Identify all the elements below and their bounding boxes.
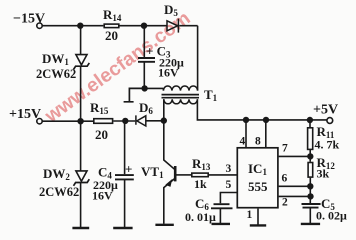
ground VT1 [155,224,173,226]
resistor R15 [94,119,113,124]
node dot pin2 [308,194,313,199]
wire C4 to ground [124,179,126,228]
pin 7 lead [279,155,311,157]
wire down to DW1 [80,26,82,55]
resistor R14 [104,24,119,28]
terminal -15V [37,23,42,28]
wire R14 to D5 [119,25,167,27]
wire R11 to pin7 node [309,150,311,162]
wire down to C3 [143,26,145,58]
pin 5 lead [220,193,236,204]
node dot C3 bottom [142,86,147,91]
IC U1 555 box [237,148,278,208]
svg-text:0. 01μ: 0. 01μ [185,210,216,224]
svg-text:16V: 16V [92,189,113,203]
svg-text:1: 1 [247,209,253,221]
svg-text:5: 5 [226,179,232,191]
ground C4 [113,227,132,229]
svg-text:DW2: DW2 [43,166,70,182]
node dot C3 top [142,23,147,28]
ground pin1 [250,224,266,226]
ground DW2 [72,227,89,229]
pin 4 lead [245,120,247,147]
wire R12 down to C5 [309,178,311,203]
ground C5 [301,223,320,225]
svg-text:20: 20 [95,127,108,142]
svg-text:1k: 1k [194,177,207,191]
svg-text:R14: R14 [103,7,122,23]
wire VT1 base to R13 [176,174,191,176]
capacitor C3 [138,58,155,62]
wire C6 to ground [219,208,221,223]
svg-text:3k: 3k [317,167,330,181]
svg-text:VT1: VT1 [141,164,164,180]
wire R13 to pin3 [209,174,237,176]
svg-text:+: + [125,162,132,177]
svg-text:20: 20 [105,28,118,43]
wire DW1 to +15V line [80,66,82,121]
svg-text:8: 8 [255,136,261,148]
capacitor C4 [115,175,134,179]
node dot pin6 [308,184,313,189]
svg-text:+15V: +15V [9,107,41,122]
diode D6 [136,115,146,126]
pin 1 lead [257,209,259,226]
diode D5 [167,19,178,33]
node dot R11 top [308,118,313,123]
node dot DW2 top [78,119,83,124]
node dot DW1 top [78,23,83,28]
wire DW2 vertical top [80,121,82,171]
wire R15 to D6 [113,120,135,122]
terminal +15V [37,119,42,124]
svg-text:D5: D5 [164,2,178,18]
node dot X [161,118,166,123]
wire C4 vertical [124,121,126,174]
pin 6 lead [279,185,311,187]
wire +15V to R15 [42,120,93,122]
wire -15V to R14 [42,25,103,27]
svg-text:−15V: −15V [13,12,45,27]
svg-text:4. 7k: 4. 7k [315,138,340,152]
node dot pin4 [244,118,249,123]
wire T1 bottom right down to +5V rail [197,99,327,120]
transistor VT1 collector [164,121,175,170]
pin 2 lead [279,195,311,197]
svg-text:7: 7 [282,143,288,155]
svg-text:555: 555 [248,179,268,194]
transformer T1 bottom winding [164,99,198,104]
terminal +5V [327,118,333,124]
pin 8 lead [265,120,267,147]
wire DW2 to ground [80,183,82,229]
tap stub with bar [124,88,145,101]
zener DW2 [76,171,87,181]
ground C6 [212,223,231,225]
resistor R11 lead top [309,120,311,128]
transistor VT1 emitter [164,179,175,224]
resistor R12 [308,163,313,178]
transformer T1 core [162,95,200,98]
svg-text:2CW62: 2CW62 [36,67,76,81]
svg-text:2: 2 [282,197,288,209]
capacitor C5 [302,204,321,208]
svg-text:0. 02μ: 0. 02μ [316,209,347,223]
transistor VT1 base bar [174,166,177,181]
svg-text:D6: D6 [139,100,153,116]
node dot pin8 [264,118,269,123]
wire C5 to ground [309,208,311,223]
wire node to T1 primary left [145,87,164,89]
wire D5 to corner [179,25,197,27]
svg-text:6: 6 [282,173,288,185]
svg-text:IC1: IC1 [248,161,267,177]
wire T1 secondary left down to node X [163,99,165,120]
svg-text:T1: T1 [204,87,218,103]
wire C3 to node [143,62,145,89]
node dot C4 top [123,119,128,124]
node dot pin7 [308,154,313,159]
wire corner down to T1 [197,26,199,91]
svg-text:16V: 16V [158,66,179,80]
svg-text:3: 3 [226,163,232,175]
svg-text:R15: R15 [90,100,109,116]
transistor VT1 emitter arrow [166,180,171,186]
resistor R11 [308,128,313,150]
resistor R13 [192,173,208,177]
svg-text:R13: R13 [192,156,211,172]
svg-text:+5V: +5V [313,103,338,118]
svg-text:DW1: DW1 [42,51,69,67]
svg-text:4: 4 [240,136,246,148]
transformer T1 top winding [163,86,197,91]
watermark www.elecfans.com [40,7,194,128]
svg-text:2CW62: 2CW62 [39,185,79,199]
capacitor C6 [211,204,233,208]
wire D6 to node X [146,120,164,122]
zener DW1 [76,55,87,65]
